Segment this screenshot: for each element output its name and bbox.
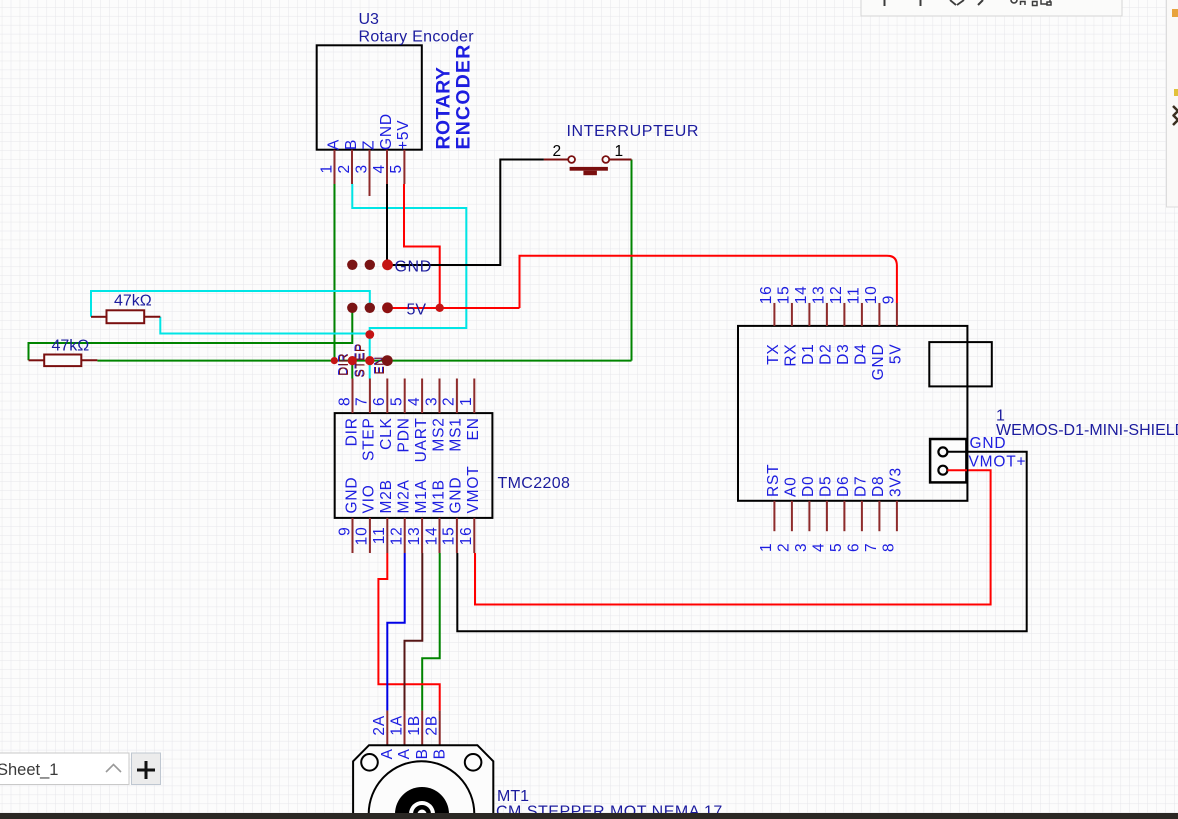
svg-text:13: 13 xyxy=(406,527,423,546)
svg-text:WEMOS-D1-MINI-SHIELD: WEMOS-D1-MINI-SHIELD xyxy=(996,422,1178,439)
svg-text:16: 16 xyxy=(758,285,775,304)
svg-text:9: 9 xyxy=(336,527,353,536)
svg-text:3: 3 xyxy=(423,397,440,406)
svg-text:11: 11 xyxy=(846,287,863,305)
svg-text:3: 3 xyxy=(353,164,370,173)
svg-text:UART: UART xyxy=(413,417,430,462)
svg-text:B: B xyxy=(343,139,360,150)
svg-text:1: 1 xyxy=(318,164,335,173)
svg-text:D3: D3 xyxy=(835,344,852,365)
svg-text:47kΩ: 47kΩ xyxy=(52,338,90,355)
svg-text:15: 15 xyxy=(441,527,458,546)
svg-text:D0: D0 xyxy=(800,476,817,497)
svg-text:M1A: M1A xyxy=(413,479,430,513)
svg-text:9: 9 xyxy=(881,295,898,304)
svg-text:ENCODER: ENCODER xyxy=(453,43,475,149)
svg-text:3: 3 xyxy=(793,543,810,552)
svg-text:GND: GND xyxy=(970,435,1007,452)
svg-text:14: 14 xyxy=(423,527,440,546)
svg-text:INTERRUPTEUR: INTERRUPTEUR xyxy=(567,123,700,140)
svg-text:5V: 5V xyxy=(407,302,427,319)
svg-text:D2: D2 xyxy=(818,344,835,365)
svg-text:15: 15 xyxy=(776,285,793,304)
svg-text:VIO: VIO xyxy=(361,484,378,513)
svg-text:2: 2 xyxy=(553,143,562,160)
svg-text:4: 4 xyxy=(406,397,423,406)
svg-text:16: 16 xyxy=(458,527,475,546)
svg-text:VMOT+: VMOT+ xyxy=(969,454,1027,471)
svg-text:A: A xyxy=(396,748,413,759)
svg-text:A: A xyxy=(325,139,342,150)
svg-text:STEP: STEP xyxy=(361,417,378,461)
svg-text:D5: D5 xyxy=(818,476,835,497)
svg-text:6: 6 xyxy=(846,543,863,552)
svg-text:VMOT: VMOT xyxy=(465,466,482,514)
svg-text:10: 10 xyxy=(863,285,880,304)
svg-text:7: 7 xyxy=(863,543,880,552)
svg-text:12: 12 xyxy=(389,527,406,546)
svg-text:2: 2 xyxy=(336,164,353,173)
svg-text:TMC2208: TMC2208 xyxy=(498,475,571,492)
svg-text:10: 10 xyxy=(354,527,371,546)
svg-text:RX: RX xyxy=(783,344,800,367)
svg-text:D1: D1 xyxy=(800,344,817,365)
svg-text:B: B xyxy=(431,748,448,759)
svg-text:PDN: PDN xyxy=(396,417,413,452)
svg-text:Rotary Encoder: Rotary Encoder xyxy=(359,29,475,46)
svg-text:6: 6 xyxy=(371,397,388,406)
svg-text:MS1: MS1 xyxy=(448,417,465,451)
svg-text:1: 1 xyxy=(758,543,775,552)
svg-text:RST: RST xyxy=(765,464,782,497)
svg-text:DIR: DIR xyxy=(337,353,351,376)
svg-text:1B: 1B xyxy=(406,715,423,736)
svg-text:3V3: 3V3 xyxy=(888,467,905,497)
svg-text:GND: GND xyxy=(395,259,432,276)
svg-text:D6: D6 xyxy=(835,476,852,497)
svg-text:DIR: DIR xyxy=(343,417,360,446)
svg-text:CLK: CLK xyxy=(378,417,395,450)
svg-text:U3: U3 xyxy=(359,11,380,28)
svg-text:M2A: M2A xyxy=(396,479,413,513)
svg-text:ROTARY: ROTARY xyxy=(433,66,455,149)
svg-text:TX: TX xyxy=(765,344,782,365)
svg-text:8: 8 xyxy=(881,543,898,552)
svg-text:A: A xyxy=(379,748,396,759)
svg-text:5: 5 xyxy=(828,543,845,552)
svg-text:2: 2 xyxy=(441,397,458,406)
svg-text:GND: GND xyxy=(870,344,887,381)
svg-text:2: 2 xyxy=(776,543,793,552)
svg-text:2A: 2A xyxy=(371,715,388,736)
svg-text:M2B: M2B xyxy=(378,479,395,513)
svg-text:13: 13 xyxy=(811,285,828,304)
svg-text:M1B: M1B xyxy=(430,479,447,513)
svg-text:GND: GND xyxy=(448,477,465,514)
svg-text:Sheet_1: Sheet_1 xyxy=(0,761,58,779)
svg-text:EN: EN xyxy=(465,417,482,440)
svg-text:MS2: MS2 xyxy=(430,417,447,451)
svg-text:11: 11 xyxy=(371,527,388,545)
svg-text:MT1: MT1 xyxy=(497,788,529,805)
svg-text:14: 14 xyxy=(793,285,810,304)
svg-text:GND: GND xyxy=(378,113,395,150)
svg-text:+5V: +5V xyxy=(395,120,412,150)
svg-text:Z: Z xyxy=(360,140,377,150)
svg-text:12: 12 xyxy=(828,285,845,304)
svg-text:8: 8 xyxy=(336,397,353,406)
svg-text:4: 4 xyxy=(371,164,388,173)
svg-text:GND: GND xyxy=(343,477,360,514)
svg-text:A0: A0 xyxy=(783,476,800,497)
svg-text:D8: D8 xyxy=(870,476,887,497)
svg-text:1: 1 xyxy=(615,143,624,160)
svg-text:47kΩ: 47kΩ xyxy=(114,293,152,310)
svg-text:4: 4 xyxy=(811,543,828,552)
svg-text:2B: 2B xyxy=(424,715,441,736)
svg-text:D7: D7 xyxy=(853,476,870,497)
svg-text:D4: D4 xyxy=(853,344,870,365)
svg-text:5: 5 xyxy=(389,397,406,406)
svg-text:5: 5 xyxy=(388,164,405,173)
svg-text:1A: 1A xyxy=(388,715,405,736)
svg-text:B: B xyxy=(414,748,431,759)
svg-text:1: 1 xyxy=(458,397,475,406)
svg-text:7: 7 xyxy=(354,397,371,406)
svg-text:5V: 5V xyxy=(888,344,905,365)
